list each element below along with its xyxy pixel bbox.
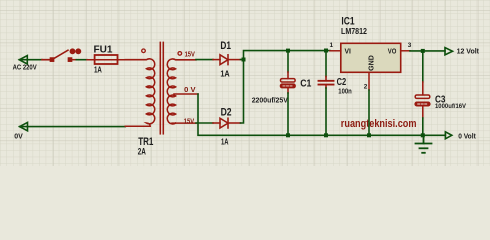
C1 negative plate marks	[283, 85, 292, 87]
svg-text:D2: D2	[221, 106, 232, 118]
junction rail/C2 bottom	[324, 133, 328, 137]
junction rail/C3/ground	[421, 133, 425, 137]
terminal AC 220V input arrow	[19, 56, 42, 64]
svg-text:3: 3	[408, 42, 412, 49]
wire C2 to ground rail	[325, 88, 327, 135]
terminal 12 Volt arrow	[445, 48, 453, 55]
svg-text:1A: 1A	[94, 66, 102, 75]
wire D2 cathode riser to D1 junction	[241, 60, 244, 124]
svg-text:2: 2	[364, 84, 368, 91]
svg-text:12 Volt: 12 Volt	[457, 46, 480, 55]
wire C3 to ground rail	[422, 118, 424, 135]
transformer TR1 primary winding	[125, 59, 154, 126]
pin 2 lead GND	[368, 72, 370, 90]
junction VO/C3	[421, 49, 425, 53]
wire IC pin2 to ground rail	[368, 90, 370, 135]
junction rail/C2	[324, 49, 328, 53]
svg-text:VI: VI	[345, 47, 351, 56]
switch right pin stub	[72, 59, 77, 61]
wire positive rail	[241, 51, 331, 60]
svg-text:1A: 1A	[220, 70, 229, 79]
svg-text:1000uf/16V: 1000uf/16V	[435, 103, 467, 110]
svg-text:ruangteknisi.com: ruangteknisi.com	[341, 118, 417, 130]
fuse FU1	[87, 55, 125, 64]
polarity dot primary	[142, 49, 146, 53]
pin 1 lead VI	[330, 50, 341, 52]
svg-text:VO: VO	[388, 47, 397, 56]
wire VO to 12V terminal	[410, 50, 445, 52]
svg-text:2A: 2A	[138, 146, 147, 156]
svg-text:15V: 15V	[185, 52, 196, 59]
capacitor C2 (100n)	[319, 77, 334, 89]
wire C1 to ground rail	[287, 93, 289, 135]
svg-text:LM7812: LM7812	[341, 26, 367, 36]
svg-text:AC 220V: AC 220V	[13, 65, 37, 72]
svg-text:D1: D1	[220, 40, 231, 52]
transformer TR1 secondary winding	[167, 59, 198, 124]
svg-text:2200uf/25V: 2200uf/25V	[252, 97, 289, 104]
diode D1	[213, 55, 241, 65]
svg-text:0V: 0V	[14, 132, 23, 141]
capacitor C1 (electrolytic)	[281, 72, 296, 93]
svg-text:FU1: FU1	[94, 45, 113, 56]
wire bottom-left rail	[20, 126, 126, 128]
capacitor C3 (electrolytic)	[415, 82, 430, 118]
svg-text:0 V: 0 V	[184, 87, 196, 94]
capacitor C2 riser	[325, 51, 327, 77]
capacitor C3 riser	[422, 51, 424, 82]
svg-text:15V: 15V	[184, 118, 195, 125]
wire secondary top to D1	[196, 59, 213, 61]
svg-text:1A: 1A	[221, 138, 229, 147]
svg-text:1: 1	[330, 42, 334, 49]
junction rail/C1	[286, 49, 290, 53]
wire switch to fuse	[76, 59, 87, 61]
diode D2	[213, 118, 241, 128]
terminal 0V input arrow	[20, 122, 126, 130]
svg-text:GND: GND	[366, 55, 375, 71]
op-amp IC1 regulator body	[341, 43, 401, 72]
capacitor C1 riser	[287, 51, 289, 72]
svg-text:C1: C1	[300, 78, 311, 90]
junction rail/IC pin2	[367, 133, 371, 137]
ground symbol	[416, 135, 432, 153]
wire ground rail (0V tap to output)	[198, 94, 445, 135]
switch SW (lever + contacts)	[42, 49, 81, 61]
svg-text:C2: C2	[337, 76, 347, 88]
junction D1/D2 cathodes	[242, 58, 246, 62]
polarity dot secondary	[178, 52, 182, 56]
wire secondary bottom to D2	[196, 122, 213, 124]
wire top-left AC to switch	[19, 59, 42, 61]
transformer core	[160, 42, 163, 133]
terminal 0 Volt arrow	[445, 132, 451, 139]
junction rail/C1 bottom	[286, 133, 290, 137]
C3 negative plate marks	[418, 103, 427, 105]
svg-text:0 Volt: 0 Volt	[458, 131, 476, 140]
pin 3 lead VO	[401, 50, 410, 52]
svg-text:100n: 100n	[338, 89, 352, 96]
